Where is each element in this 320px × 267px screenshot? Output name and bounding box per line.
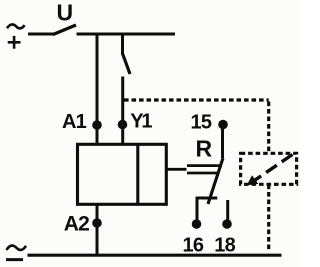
svg-text:U: U [57,0,73,26]
svg-text:Y1: Y1 [130,110,152,132]
svg-text:A2: A2 [64,213,89,236]
svg-text:A1: A1 [62,111,87,133]
svg-text:15: 15 [191,111,212,133]
svg-text:R: R [196,135,213,161]
svg-text:16: 16 [183,234,204,256]
svg-text:18: 18 [214,234,235,256]
